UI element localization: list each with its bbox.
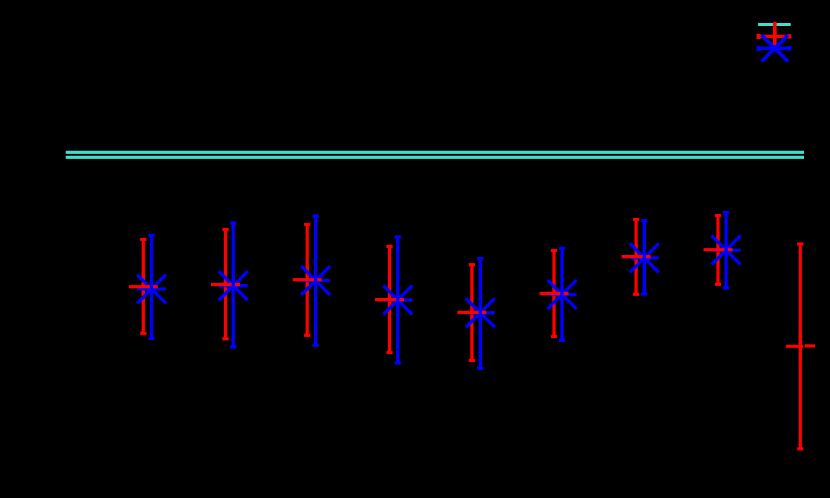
blue errorbar 6 xyxy=(559,248,565,340)
red errorbar 7 xyxy=(633,220,639,295)
red errorbar 1 xyxy=(140,240,146,334)
blue star marker 6 xyxy=(548,280,577,309)
blue errorbar 8 xyxy=(723,213,729,288)
blue errorbar 7 xyxy=(641,221,647,294)
red plus marker horizontal ray 4 xyxy=(375,298,404,301)
blue star marker 5 xyxy=(466,298,495,327)
blue star marker 7 xyxy=(630,243,659,272)
red errorbar 5 xyxy=(469,265,475,361)
legend blue errorbar sample line with end ticks xyxy=(757,46,792,51)
red errorbar 3 xyxy=(304,225,310,336)
red errorbar 2 xyxy=(222,230,228,339)
reference band lower cyan line xyxy=(66,156,804,159)
legend blue star marker diagonals xyxy=(762,35,788,61)
blue errorbar 2 xyxy=(230,223,236,347)
blue errorbar 1 xyxy=(148,235,154,338)
red plus marker horizontal ray 8 xyxy=(704,248,733,251)
lone red errorbar 9 at right edge xyxy=(797,244,803,449)
lone red plus marker 9 horizontal ray (split by plot border) xyxy=(786,344,815,348)
red plus marker horizontal ray 2 xyxy=(211,283,240,286)
red plus marker horizontal ray 7 xyxy=(622,255,651,258)
red plus marker horizontal ray 6 xyxy=(540,292,569,295)
blue star marker 8 xyxy=(712,236,741,265)
red plus marker horizontal ray 3 xyxy=(293,278,322,281)
legend red errorbar sample: line, end ticks, plus marker vertical ray xyxy=(757,22,792,50)
legend cyan line sample xyxy=(758,23,791,26)
red errorbar 8 xyxy=(715,216,721,285)
blue errorbar 3 xyxy=(313,216,319,345)
red errorbar 6 xyxy=(551,251,557,337)
blue errorbar 5 xyxy=(477,259,483,369)
blue errorbar 4 xyxy=(395,237,401,363)
blue star marker 4 xyxy=(383,286,412,315)
red plus marker horizontal ray 5 xyxy=(457,311,486,314)
blue star marker 3 xyxy=(301,266,330,295)
blue star marker 2 xyxy=(219,271,248,300)
reference band upper cyan line xyxy=(66,151,804,154)
red errorbar 4 xyxy=(386,246,392,352)
red plus marker horizontal ray 1 xyxy=(129,285,158,288)
blue star marker 1 xyxy=(137,275,166,304)
